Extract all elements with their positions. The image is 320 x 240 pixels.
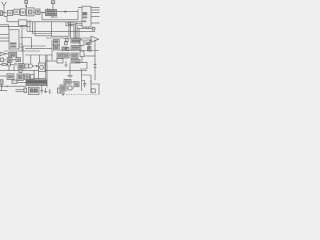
- wire: [46, 37, 91, 39]
- junction marks: [2, 85, 7, 87]
- power unit PS1: [26, 80, 47, 86]
- box N3: [71, 53, 78, 59]
- wire: [1, 84, 3, 91]
- box M4: [25, 64, 29, 68]
- wire: [0, 89, 7, 91]
- wire with arrow: [33, 65, 39, 67]
- box N1: [57, 53, 62, 59]
- wire elbow: [68, 22, 76, 39]
- box K2: [1, 58, 4, 62]
- label smudge: [20, 27, 25, 29]
- box V1: [53, 40, 59, 45]
- wire: [45, 60, 60, 62]
- wire: [22, 46, 46, 64]
- connector J1: [0, 11, 3, 16]
- wire pair: [16, 89, 25, 91]
- box E3: [24, 88, 27, 93]
- box G2: [74, 82, 79, 87]
- box Q2: [80, 51, 84, 57]
- wire: [25, 47, 52, 49]
- boxes row: [17, 74, 23, 80]
- wire: [21, 25, 23, 51]
- diamond: [69, 54, 70, 55]
- wire: [6, 53, 9, 55]
- wire: [78, 29, 80, 40]
- pin: [91, 9, 100, 11]
- staircase wire: [75, 57, 87, 70]
- VCO box with circle: [39, 63, 46, 72]
- wire: [0, 85, 26, 87]
- pin: [0, 37, 9, 39]
- wire: [15, 81, 26, 83]
- pin: [91, 7, 100, 9]
- small box at wire end: [92, 27, 95, 30]
- ground: [44, 88, 47, 93]
- wire: [35, 22, 52, 36]
- wire: [75, 24, 82, 26]
- wire: [88, 45, 90, 48]
- pin: [91, 12, 100, 14]
- pot box with arrow: [86, 40, 91, 45]
- wire: [60, 50, 99, 52]
- box W2: [71, 46, 81, 50]
- box N2: [63, 53, 69, 58]
- ground: [61, 91, 65, 96]
- pin stubs bottom of U2: [84, 27, 88, 28]
- mixer M1: [27, 8, 35, 16]
- wire: [94, 40, 96, 80]
- wire: [0, 25, 30, 27]
- box K3: [7, 58, 12, 62]
- wire elbow bundle: [70, 22, 77, 39]
- pin: [91, 15, 100, 17]
- box V2: [53, 45, 59, 50]
- wire: [3, 11, 8, 13]
- pin: [19, 44, 23, 47]
- wire: [12, 59, 16, 61]
- wire: [78, 7, 82, 9]
- ground: [67, 71, 73, 77]
- ground: [48, 89, 51, 93]
- wire: [91, 80, 100, 94]
- wire: [69, 63, 71, 71]
- box P1: [57, 59, 63, 64]
- dashed line: [66, 93, 100, 95]
- capacitor C1: [82, 81, 87, 88]
- valve marks: [4, 59, 6, 61]
- wire: [38, 72, 40, 79]
- box E5: [57, 88, 60, 93]
- IF IC U1: [46, 10, 57, 16]
- wire: [25, 3, 27, 8]
- box T1: [91, 89, 95, 93]
- left arrow funnel: [0, 52, 6, 56]
- mixer circle: [29, 64, 33, 68]
- wire: [0, 70, 87, 72]
- box K3b: [16, 58, 21, 62]
- amplifier A1: [14, 9, 19, 14]
- small dark comp: [14, 63, 17, 66]
- wire: [34, 11, 36, 13]
- audio IC U2: [82, 6, 91, 27]
- wire: [70, 22, 72, 38]
- box M3: [18, 64, 24, 70]
- small box: [65, 38, 68, 41]
- pin stubs top of U1: [48, 8, 50, 9]
- wire: [77, 28, 92, 30]
- diamond: [62, 54, 63, 55]
- wire elbow: [66, 22, 74, 39]
- wire: [84, 55, 95, 57]
- antenna: [2, 2, 7, 13]
- ground: [40, 85, 44, 93]
- ground: [64, 61, 68, 66]
- pin: [0, 25, 9, 30]
- wire: [40, 11, 46, 13]
- dual module box: [28, 87, 39, 94]
- box K1: [9, 52, 17, 56]
- pin: [91, 22, 100, 24]
- bus wire: [4, 13, 82, 22]
- box E2: [12, 80, 17, 83]
- wire: [29, 20, 31, 32]
- wire: [27, 30, 95, 32]
- controller IC U3: [9, 30, 19, 49]
- wire: [25, 40, 52, 60]
- filter FL2: [20, 9, 25, 16]
- resistor R2: [2, 63, 6, 65]
- wire: [71, 81, 74, 83]
- filter FL3: [36, 9, 40, 15]
- box G3: [60, 85, 66, 91]
- diode box: [65, 42, 68, 45]
- small dark comp: [67, 48, 70, 51]
- wire: [4, 50, 40, 52]
- wire: [66, 87, 74, 89]
- wire: [46, 55, 47, 87]
- speaker symbol: [88, 47, 90, 52]
- box K4: [7, 74, 14, 80]
- wire: [25, 11, 26, 13]
- small comp above M3: [19, 70, 22, 73]
- wire: [52, 22, 69, 36]
- wire: [52, 4, 54, 10]
- wire: [51, 16, 58, 17]
- oscillator X1: [25, 1, 28, 4]
- box row2: [25, 74, 30, 80]
- wire: [31, 55, 40, 64]
- box row3: [31, 74, 34, 79]
- plus marks: [94, 63, 97, 67]
- wire: [18, 11, 21, 13]
- wire: [0, 75, 7, 77]
- wire: [33, 22, 52, 34]
- box G4: [68, 86, 72, 90]
- wire: [26, 22, 28, 32]
- small squares pair: [62, 47, 64, 50]
- box N4: [71, 60, 80, 64]
- pin: [0, 40, 9, 42]
- box W1: [71, 39, 81, 43]
- wire: [68, 22, 70, 36]
- wire: [42, 12, 78, 19]
- wire: [77, 9, 79, 19]
- right arrow funnel: [91, 36, 99, 42]
- wire with arrow: [57, 11, 79, 13]
- diode D1: [8, 63, 11, 66]
- wire: [34, 70, 46, 79]
- wire: [20, 38, 32, 49]
- wire: [13, 11, 14, 13]
- pin: [0, 34, 9, 36]
- filter FL1: [7, 10, 12, 15]
- register box R1: [18, 20, 27, 25]
- box E1: [0, 80, 3, 85]
- crystal X2: [51, 1, 55, 4]
- wire: [9, 65, 14, 70]
- box G1: [64, 79, 71, 84]
- wire: [82, 70, 91, 93]
- box Q1: [80, 40, 84, 46]
